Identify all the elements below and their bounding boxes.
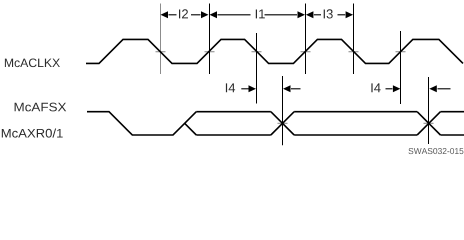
signal label McAXR0/1 [2,129,63,138]
reference line at clock rise 2 [209,4,211,75]
data bus bottom rail 3 [440,134,464,136]
I3 label [324,9,333,18]
bus open branch [185,123,197,135]
data bus top rail 2 [294,111,417,113]
data bus bottom rail 2 [294,134,417,136]
data bus top rail 3 [440,111,464,113]
reference line at clock rise 4 (I4 start) [400,31,402,104]
I1 label [256,10,265,19]
signal label McACLKX [5,59,60,68]
reference line at data transition 1 [282,76,284,145]
reference line at data transition 2 [428,77,430,144]
gray reference tick at data transition 1 [278,122,288,124]
figure tag SWAS032-015 [409,148,464,154]
gray reference tick at data transition 2 [424,122,434,124]
reference line at clock rise 3 [305,4,307,75]
reference line at clock fall 3 [353,4,355,75]
data bus bottom rail 1 [196,134,271,136]
gray reference tick at clock rise 3 [301,51,311,53]
I4 second dimension [371,83,380,92]
I3 dimension arrows [306,11,314,18]
gray reference tick at clock fall 3 [349,51,359,53]
data bus crossover 2 [417,112,440,135]
signal label McAFSX [15,103,67,112]
gray reference tick at clock rise 2 [205,51,215,53]
data bus crossover 1 [271,112,294,135]
I2 dimension arrows [161,11,169,18]
reference line at clock fall 2 (I4 start) [256,33,258,104]
gray reference tick at clock fall 2 [252,51,262,53]
clock waveform McACLKX [86,39,463,63]
data bus top rail 1 [196,111,271,113]
I2 label [179,9,188,18]
gray reference tick at clock fall 1 [156,51,166,53]
McAFSX waveform [87,112,196,135]
I4 first dimension [226,83,235,92]
I1 dimension arrows [210,11,218,18]
gray reference tick at clock rise 4 [396,51,406,53]
reference line at clock fall 1 (gray) [160,4,162,75]
